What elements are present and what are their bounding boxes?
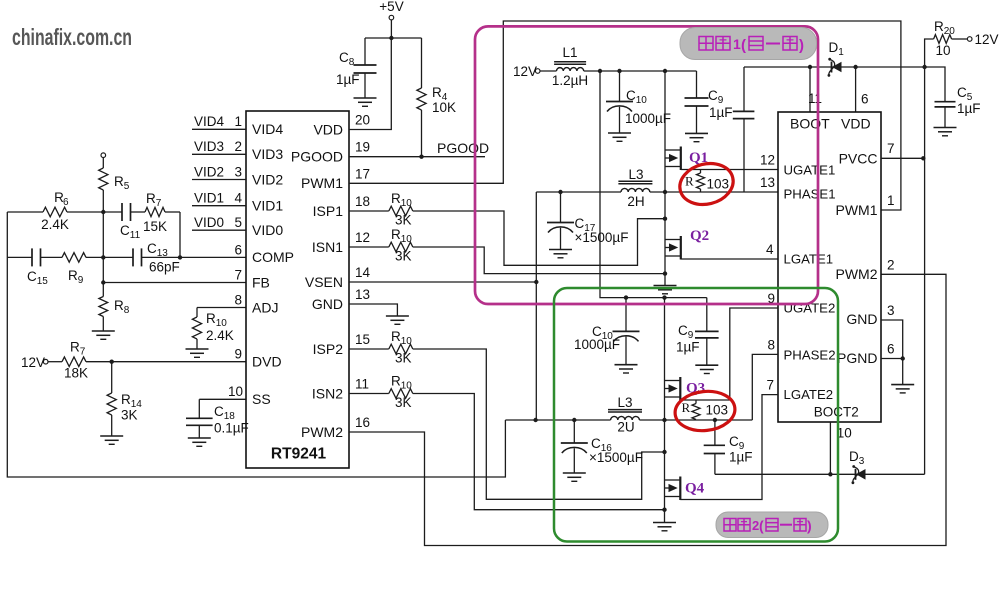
junction boot/VDD6: [853, 65, 857, 69]
svg-text:1µF: 1µF: [729, 450, 753, 465]
svg-text:BOCT2: BOCT2: [814, 405, 859, 420]
ground right IC PGND: [891, 385, 914, 393]
svg-text:FB: FB: [252, 274, 270, 290]
svg-text:6: 6: [887, 342, 895, 357]
junction node A x FB: [101, 280, 105, 284]
pin 15 ISP2: [313, 332, 370, 357]
junction output/C9 boot: [713, 418, 717, 422]
svg-text:3K: 3K: [395, 213, 412, 228]
svg-text:BOOT: BOOT: [790, 116, 830, 132]
svg-text:2U: 2U: [617, 420, 634, 435]
wire ISP1 route: [413, 211, 665, 265]
wire BOCT2 stub: [829, 422, 831, 474]
svg-text:L3: L3: [617, 395, 632, 410]
junction node A x COMP-top: [101, 210, 105, 214]
svg-text:GND: GND: [846, 311, 877, 327]
wire BOCT2 net: [715, 473, 925, 475]
node VID0 pin 5: [192, 215, 283, 238]
wire node A to C11: [103, 211, 122, 213]
wire GND pin13: [349, 304, 397, 316]
svg-text:66pF: 66pF: [149, 260, 180, 275]
wire PVCC stub: [881, 157, 923, 159]
junction ISP1/bus: [663, 217, 667, 221]
wire ISN2 route: [413, 394, 665, 510]
svg-text:VID4: VID4: [194, 114, 225, 129]
terminal 12V ch1: [513, 64, 540, 79]
capacitor C16: [561, 420, 643, 473]
pin 17 PWM1: [301, 166, 370, 191]
svg-text:2.4K: 2.4K: [206, 328, 234, 343]
junction +5V rail: [389, 36, 393, 40]
channel 2 highlight box: [554, 288, 838, 542]
resistor R20: [925, 19, 968, 67]
pin 8 ADJ: [234, 292, 278, 315]
svg-text:103: 103: [707, 177, 730, 192]
svg-text:6: 6: [861, 92, 869, 107]
junction output/C16: [572, 418, 576, 422]
pin 11 ISN2: [312, 377, 369, 402]
svg-text:3: 3: [234, 164, 242, 179]
resistor R10 3K ISP1: [389, 191, 413, 228]
wire BOOT stub: [809, 67, 811, 112]
svg-text:16: 16: [355, 415, 370, 430]
wire 12V rail ch1: [584, 70, 697, 72]
wire left rail + output feedback: [7, 212, 505, 477]
svg-text:13: 13: [355, 287, 370, 302]
diode D3: [849, 449, 866, 484]
junction output/sense: [533, 418, 537, 422]
svg-text:1: 1: [887, 193, 895, 208]
resistor R5: [99, 158, 130, 193]
terminal R5 top: [101, 153, 106, 158]
ground below C5: [934, 128, 957, 136]
svg-text:VID3: VID3: [194, 139, 224, 154]
resistor R 103 ch1: [685, 170, 729, 193]
svg-text:1µF: 1µF: [957, 101, 981, 116]
wire R9 to node A: [86, 256, 103, 258]
svg-text:VID1: VID1: [194, 191, 224, 206]
junction rail/x600: [598, 69, 602, 73]
pin 3 GND: [846, 303, 894, 327]
pin 13 GND: [312, 287, 370, 312]
svg-text:4: 4: [766, 242, 774, 257]
svg-text:VID4: VID4: [252, 121, 283, 137]
wire PGND stub: [881, 358, 903, 360]
svg-text:8: 8: [234, 292, 242, 307]
capacitor C17: [547, 192, 628, 250]
svg-text:L1: L1: [562, 45, 577, 60]
svg-text:2H: 2H: [627, 194, 644, 209]
svg-text:LGATE1: LGATE1: [784, 252, 834, 267]
wire output sense vertical: [535, 192, 537, 420]
ground below C9 ch1: [685, 133, 708, 141]
svg-text:PGND: PGND: [837, 350, 877, 366]
pin 7 PVCC: [839, 141, 895, 167]
wire BOOT net top: [744, 67, 945, 102]
svg-text:14: 14: [355, 265, 371, 280]
pin 20 VDD: [313, 113, 370, 138]
svg-text:20: 20: [355, 113, 370, 128]
resistor R10 3K ISN2: [389, 374, 413, 411]
wire PHASE1 line: [536, 191, 778, 193]
wire 12V rail right: [924, 67, 926, 474]
ground below C8: [354, 98, 377, 106]
svg-text:0.1µF: 0.1µF: [214, 421, 249, 436]
wire UGATE2 route: [680, 308, 778, 400]
svg-text:1: 1: [234, 114, 242, 129]
svg-text:UGATE1: UGATE1: [784, 163, 836, 178]
junction BOCT2 stub: [828, 472, 832, 476]
ground RT9241 GND: [386, 316, 409, 324]
junction bus/output ch2: [662, 418, 666, 422]
wire VSEN: [349, 281, 536, 283]
capacitor bootstrap ch1: [733, 67, 755, 192]
svg-text:2: 2: [887, 257, 895, 272]
svg-text:VID1: VID1: [252, 198, 283, 214]
pin 10 BOCT2: [814, 405, 859, 441]
svg-text:8: 8: [767, 338, 775, 353]
svg-text:×1500µF: ×1500µF: [589, 450, 643, 465]
resistor R4: [417, 38, 456, 157]
svg-text:1000µF: 1000µF: [625, 111, 671, 126]
capacitor C9 bootstrap ch2: [704, 420, 753, 474]
svg-text:12: 12: [355, 230, 370, 245]
svg-text:15: 15: [355, 332, 370, 347]
svg-text:VID2: VID2: [194, 164, 224, 179]
junction DVD/R14: [110, 360, 114, 364]
resistor R7 15K: [143, 191, 167, 234]
svg-text:9: 9: [234, 347, 242, 362]
junction node A x C13 line: [101, 255, 105, 259]
svg-text:7: 7: [234, 267, 242, 282]
ground below R8: [92, 331, 115, 339]
svg-text:PWM2: PWM2: [301, 424, 343, 440]
svg-text:18: 18: [355, 194, 370, 209]
junction ISP2/bus: [662, 450, 666, 454]
junction PVCC/rail: [921, 156, 925, 160]
op-amp U2 driver box: [778, 112, 881, 422]
resistor R6: [41, 190, 69, 232]
wire GND3 stub: [881, 320, 903, 359]
capacitor C13: [103, 241, 179, 275]
svg-text:3K: 3K: [121, 408, 138, 423]
svg-text:1µF: 1µF: [336, 72, 360, 87]
junction C17/phase: [558, 190, 562, 194]
svg-text:12V: 12V: [513, 64, 537, 79]
pin 12 UGATE1: [760, 153, 835, 178]
resistor R10 3K ISP2: [389, 329, 413, 366]
wire PWM1 route top: [349, 21, 901, 210]
pin 12 ISN1: [312, 230, 370, 255]
svg-text:1µF: 1µF: [676, 340, 700, 355]
junction R4/PGOOD: [419, 155, 423, 159]
node VID3 pin 2: [192, 139, 283, 162]
pin 6 PGND: [837, 342, 894, 367]
resistor R8: [99, 297, 130, 332]
highlight ellipse R103 ch1: [675, 158, 737, 210]
svg-text:ADJ: ADJ: [252, 299, 278, 315]
terminal +5V: [379, 0, 403, 20]
transistor Q3: [665, 377, 706, 401]
terminal 12V left: [21, 355, 48, 370]
svg-text:4: 4: [234, 191, 242, 206]
junction ch2 rail/bus: [662, 295, 666, 299]
svg-text:VID0: VID0: [252, 222, 283, 238]
node VID1 pin 4: [192, 191, 283, 214]
svg-text:Q2: Q2: [690, 228, 709, 244]
pin 10 SS: [228, 384, 271, 407]
junction rail/Q1 bus: [663, 69, 667, 73]
ground below C10 ch2: [615, 365, 638, 373]
svg-text:12V: 12V: [21, 355, 45, 370]
pin 1 PWM1: [836, 193, 895, 218]
capacitor C9 ch2: [676, 298, 719, 366]
ground below C17: [549, 250, 572, 258]
svg-text:5: 5: [234, 215, 242, 230]
svg-text:6: 6: [63, 197, 69, 208]
svg-text:PGOOD: PGOOD: [437, 140, 489, 156]
svg-text:6: 6: [234, 242, 242, 257]
junction ch2 rail/C10: [624, 295, 628, 299]
junction COMP corner: [178, 255, 182, 259]
svg-text:COMP: COMP: [252, 249, 294, 265]
capacitor C15: [27, 248, 48, 287]
ground below R14: [100, 436, 123, 444]
svg-text:17: 17: [355, 166, 370, 181]
svg-text:DVD: DVD: [252, 354, 282, 370]
svg-text:R: R: [682, 400, 691, 415]
svg-text:11: 11: [355, 377, 369, 392]
wire R7 to DVD pin: [86, 361, 246, 363]
wire UGATE1: [681, 169, 778, 171]
svg-text:PWM2: PWM2: [836, 266, 878, 282]
wire PHASE2 route: [752, 354, 778, 420]
wire +5V rail: [365, 20, 422, 38]
pin 6 COMP: [234, 242, 294, 265]
wire LGATE2 route: [680, 395, 778, 500]
junction ISN1/bus: [663, 271, 667, 275]
wire ISN2: [349, 393, 389, 395]
svg-text:RT9241: RT9241: [271, 446, 327, 463]
svg-text:L3: L3: [628, 167, 643, 182]
svg-text:VSEN: VSEN: [305, 274, 343, 290]
svg-text:1µF: 1µF: [709, 105, 733, 120]
node VID4 pin 1: [192, 114, 283, 137]
pin 8 PHASE2: [767, 338, 835, 363]
wire 12V to L1: [540, 70, 557, 72]
capacitor C10 ch1: [606, 71, 671, 133]
svg-text:PHASE1: PHASE1: [784, 187, 836, 202]
svg-text:1.2µH: 1.2µH: [552, 73, 588, 88]
svg-text:ISN2: ISN2: [312, 385, 343, 401]
svg-text:13: 13: [760, 175, 775, 190]
wire ISP2 route: [413, 349, 665, 499]
capacitor C10 ch2: [574, 298, 640, 365]
wire node A vertical: [102, 190, 104, 297]
pin 6 VDD top: [841, 92, 871, 132]
resistor R14: [107, 362, 142, 436]
svg-text:VDD: VDD: [313, 121, 343, 137]
wire 12V feed vertical x600: [600, 71, 707, 298]
svg-text:7: 7: [887, 141, 895, 156]
svg-text:12V: 12V: [975, 32, 999, 47]
pin 14 VSEN: [305, 265, 371, 290]
svg-text:19: 19: [355, 140, 370, 155]
wire Q3Q4 bus: [664, 298, 666, 523]
svg-text:2: 2: [234, 139, 242, 154]
ground below C9 ch2: [695, 365, 718, 373]
svg-text:×1500µF: ×1500µF: [575, 230, 629, 245]
pin 4 LGATE1: [766, 242, 833, 267]
svg-text:10: 10: [228, 384, 243, 399]
svg-text:PGOOD: PGOOD: [291, 149, 343, 165]
wire SS stub: [199, 398, 246, 400]
wire ISP2: [349, 348, 389, 350]
resistor R 103 ch2: [682, 400, 729, 420]
svg-text:LGATE2: LGATE2: [784, 387, 834, 402]
svg-text:R: R: [685, 174, 694, 189]
wire 12V to R7: [48, 361, 62, 363]
wire PGND down: [902, 359, 904, 385]
svg-text:3K: 3K: [395, 395, 412, 410]
svg-text:PVCC: PVCC: [839, 151, 878, 167]
svg-text:3K: 3K: [395, 249, 412, 264]
pin 19 PGOOD: [291, 140, 370, 165]
wire LGATE1: [681, 258, 778, 260]
ground below R10 2.4K: [186, 349, 209, 357]
inductor L1: [552, 45, 588, 88]
ground below C10 ch1: [608, 133, 631, 141]
node VID2 pin 3: [192, 164, 283, 187]
transistor Q2: [665, 228, 709, 260]
wire PGOOD net: [349, 140, 489, 157]
svg-text:): ): [799, 37, 804, 54]
channel 1 highlight box: [475, 26, 818, 304]
pin 18 ISP1: [313, 194, 370, 219]
pin 9 DVD: [234, 347, 281, 370]
svg-text:10K: 10K: [432, 100, 456, 115]
svg-text:ISN1: ISN1: [312, 239, 343, 255]
label channel1 (phase 1): [680, 28, 817, 60]
wire ISP1: [349, 210, 389, 212]
svg-text:103: 103: [706, 403, 729, 418]
capacitor C11: [120, 203, 141, 241]
terminal 12V right: [967, 32, 998, 47]
svg-text:VID3: VID3: [252, 146, 283, 162]
svg-text:3K: 3K: [395, 351, 412, 366]
transistor Q4: [665, 477, 705, 501]
svg-text:2.4K: 2.4K: [41, 217, 69, 232]
ground below C16: [563, 473, 586, 481]
capacitor C8: [336, 38, 377, 98]
inductor L3 ch2: [608, 395, 642, 435]
junction ISN2/bus: [662, 508, 666, 512]
wire PWM2 route bottom: [349, 274, 946, 545]
pin 13 PHASE1: [760, 175, 836, 202]
junction rail/C10: [617, 69, 621, 73]
capacitor C9 ch1: [685, 71, 733, 133]
svg-text:1000µF: 1000µF: [574, 337, 620, 352]
pin 7 LGATE2: [766, 378, 833, 403]
svg-text:15K: 15K: [143, 219, 167, 234]
wire C13 to COMP pin: [142, 256, 247, 258]
svg-text:10: 10: [935, 43, 950, 58]
wire COMP network top rail: [7, 211, 103, 213]
ground below C18: [188, 438, 211, 446]
pin 16 PWM2: [301, 415, 370, 440]
wire R7 to COMP corner: [165, 212, 180, 257]
junction boot/BOOT pin: [808, 65, 812, 69]
ground Q4 source: [653, 523, 676, 531]
svg-text:(: (: [741, 37, 746, 54]
svg-text:12: 12: [760, 153, 775, 168]
svg-text:3: 3: [887, 303, 895, 318]
svg-text:18K: 18K: [64, 366, 88, 381]
wire VDD pin20: [349, 38, 391, 130]
svg-text:Q4: Q4: [685, 481, 705, 497]
svg-text:): ): [807, 518, 812, 534]
wire Q1 bus: [664, 71, 666, 286]
resistor R9: [62, 253, 86, 286]
svg-text:SS: SS: [252, 391, 271, 407]
pin 11 BOOT: [790, 91, 830, 132]
capacitor C5: [935, 85, 981, 128]
wire C15 branch: [7, 256, 62, 258]
wire VDD6 stub: [855, 67, 857, 112]
capacitor C18: [186, 399, 249, 438]
svg-text:ISP2: ISP2: [313, 341, 344, 357]
wire output line ch2: [505, 419, 752, 421]
inductor L3 ch1: [618, 167, 652, 209]
junction PGND/gnd: [901, 356, 905, 360]
junction VSEN/output sense: [534, 280, 538, 284]
wire ISN1 route: [413, 247, 665, 274]
label channel2 (phase 2): [716, 512, 828, 538]
resistor R10 2.4K on ADJ: [192, 308, 233, 350]
wire ADJ stub: [197, 307, 246, 309]
svg-text:VDD: VDD: [841, 116, 871, 132]
svg-text:PWM1: PWM1: [836, 202, 878, 218]
junction boot/12V rail right: [922, 65, 926, 69]
wire C11 to R7: [131, 211, 146, 213]
svg-text:7: 7: [766, 378, 774, 393]
svg-text:+5V: +5V: [379, 0, 403, 14]
highlight ellipse R103 ch2: [673, 388, 737, 433]
ground Q2 source: [654, 286, 677, 294]
pin 7 FB: [234, 267, 269, 290]
svg-text:PWM1: PWM1: [301, 175, 343, 191]
svg-text:VID2: VID2: [252, 171, 283, 187]
svg-text:PHASE2: PHASE2: [784, 348, 836, 363]
op-amp U1 RT9241 box: [246, 111, 349, 468]
junction bus/phase1: [663, 190, 667, 194]
svg-text:(: (: [759, 518, 764, 534]
resistor R10 3K ISN1: [389, 227, 413, 264]
wire FB line: [103, 282, 246, 284]
svg-text:11: 11: [808, 91, 822, 106]
svg-text:1: 1: [733, 36, 741, 52]
pin 9 UGATE2: [767, 291, 835, 316]
svg-text:chinafix.com.cn: chinafix.com.cn: [12, 24, 132, 50]
transistor Q1: [665, 147, 708, 171]
svg-text:VID0: VID0: [194, 215, 224, 230]
wire ISN1: [349, 246, 389, 248]
resistor R7 18K: [62, 340, 88, 381]
diode D1: [828, 40, 845, 77]
logo chinafix.com.cn: [12, 24, 132, 50]
pin 2 PWM2: [836, 257, 895, 282]
svg-text:ISP1: ISP1: [313, 203, 344, 219]
